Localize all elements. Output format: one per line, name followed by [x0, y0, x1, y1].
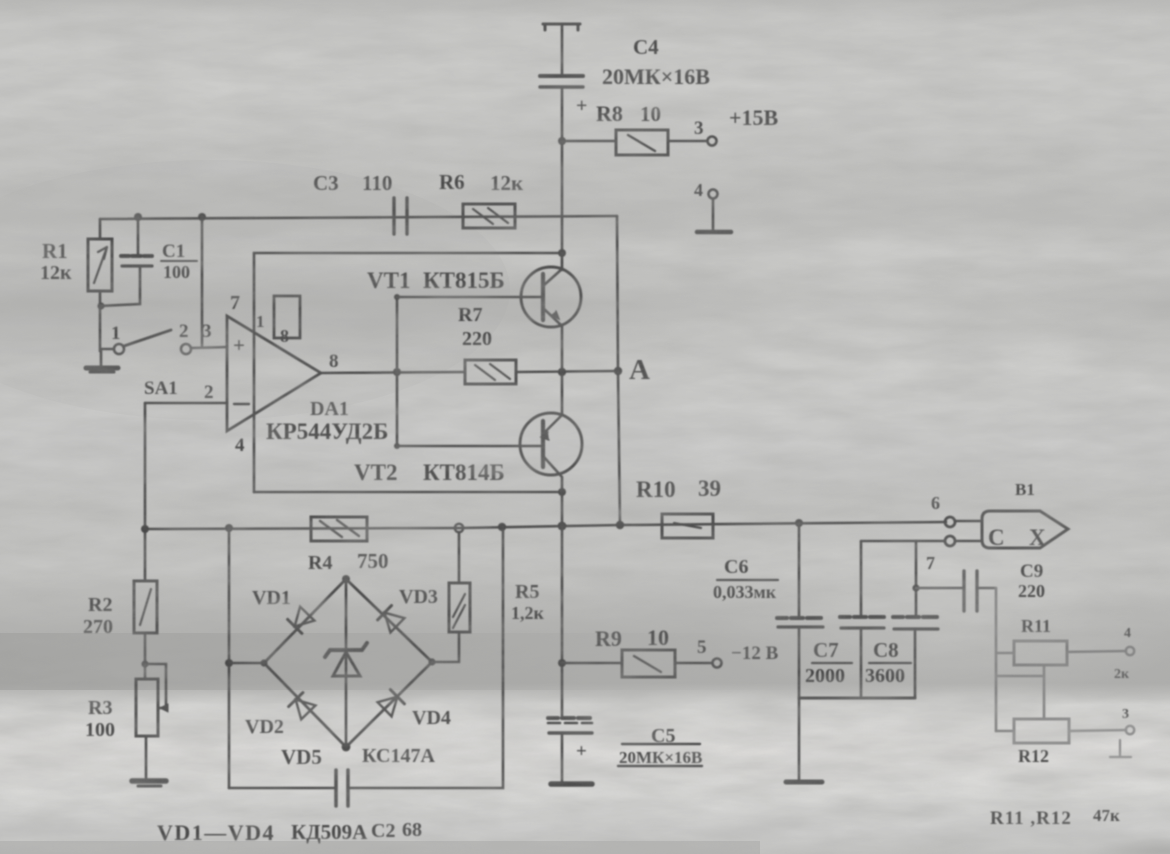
wire ladder stubs [996, 665, 1044, 731]
capacitor C3 [313, 171, 407, 234]
wire noninverting branch [201, 217, 204, 347]
capacitor C2 [229, 770, 348, 806]
bottom caption VD1-VD4 C2 [157, 819, 422, 845]
capacitor C9 [916, 561, 1045, 611]
ground under terminal 4 [697, 230, 731, 235]
resistor R12 [1014, 719, 1126, 766]
resistor R5 [432, 532, 545, 662]
wire emitter bus below rail [558, 492, 566, 717]
wire output ladder vertical [995, 588, 998, 731]
terminal output 3 [1110, 707, 1134, 757]
resistor R2 [83, 581, 157, 679]
capacitor C8 [865, 617, 938, 698]
resistor R3 trimmer [85, 664, 168, 778]
resistor R6 [439, 170, 524, 228]
zener VD5 [281, 643, 435, 769]
wire main horizontal rail [145, 519, 946, 532]
connector B1 [982, 480, 1068, 550]
switch SA1 [101, 321, 227, 399]
wire ground bar C7 C8 [799, 697, 915, 700]
capacitor C5 [548, 718, 702, 782]
capacitor C1 [97, 217, 197, 310]
wire op-amp output [321, 368, 465, 376]
ground under C5 [551, 781, 592, 787]
wire supply vertical mid [558, 87, 566, 253]
wire bridge left vertical [225, 528, 233, 788]
transistor VT1 [367, 253, 581, 372]
note R11 R12 [990, 806, 1120, 829]
wire feedback vertical [617, 216, 620, 525]
diode VD2 [245, 693, 316, 738]
op-amp DA1 [204, 292, 388, 456]
wire inverting input [145, 402, 227, 405]
trimmer pins 1-8 box [256, 296, 300, 346]
transistor VT2 [354, 372, 582, 492]
resistor R9 [562, 625, 712, 677]
ground under C6 [786, 780, 822, 785]
diode bridge diamond [229, 575, 436, 751]
wire input top rail [100, 213, 617, 221]
terminal 5 -12V [697, 637, 779, 668]
terminal 7 [945, 536, 980, 546]
capacitor C7 [805, 541, 884, 698]
wire inverting bus vertical [141, 403, 149, 581]
resistor R7 [458, 304, 618, 384]
wire rail to bottom right of bridge [348, 527, 503, 788]
terminal 6 [931, 493, 980, 527]
resistor R11 [996, 616, 1126, 665]
capacitor C6 [713, 523, 823, 780]
wire negative rail [254, 488, 566, 496]
resistor R1 [40, 219, 112, 351]
terminal output 4 [1114, 626, 1134, 682]
node A [558, 354, 650, 386]
diode VD4 [378, 690, 451, 729]
diode VD3 [378, 586, 438, 633]
terminal 3 +15V [694, 105, 779, 146]
wire top bar [543, 24, 580, 30]
wire base bus vertical [394, 294, 400, 449]
wire pin7 bus [861, 541, 944, 617]
wire supply vertical top [561, 24, 564, 76]
ground under switch [86, 349, 118, 372]
ground under R3 [132, 781, 166, 786]
diode VD1 [252, 587, 314, 633]
resistor R8 [562, 101, 706, 155]
wire supply rails through op-amp [254, 249, 566, 492]
resistor R4 [308, 517, 389, 574]
resistor R10 [636, 476, 721, 538]
terminal 4 [694, 180, 718, 230]
capacitor C4 [540, 35, 710, 117]
